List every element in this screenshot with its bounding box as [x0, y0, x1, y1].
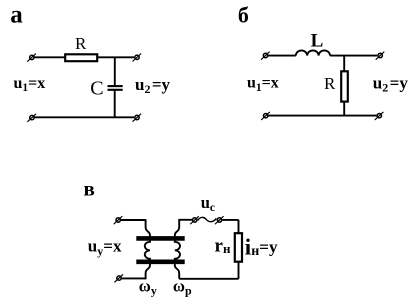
svg-text:L: L — [311, 31, 324, 52]
svg-text:R: R — [324, 74, 336, 93]
svg-text:u2=y: u2=y — [373, 73, 409, 94]
svg-text:uу=x: uу=x — [88, 237, 122, 258]
svg-text:iн=y: iн=y — [245, 235, 278, 260]
svg-text:б: б — [238, 2, 249, 27]
svg-text:R: R — [75, 34, 87, 53]
svg-text:u1=x: u1=x — [247, 75, 279, 94]
svg-text:ωу: ωу — [139, 276, 157, 297]
svg-text:а: а — [10, 2, 23, 29]
svg-text:C: C — [90, 78, 103, 100]
svg-text:u2=y: u2=y — [135, 75, 171, 96]
svg-text:uc: uc — [201, 193, 215, 214]
svg-text:rн: rн — [215, 236, 231, 257]
svg-text:u1=x: u1=x — [14, 75, 46, 94]
svg-text:в: в — [84, 177, 95, 201]
